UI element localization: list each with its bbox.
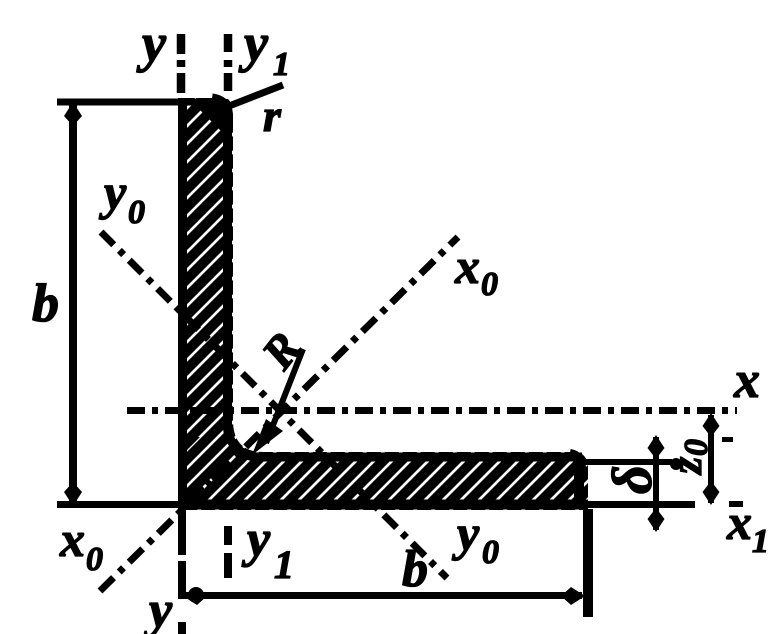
section outline: inner right face of vertical leg — [223, 118, 232, 428]
short dash of x1 axis right of z0 dimension — [729, 501, 743, 507]
dimension b (left): top arrow — [64, 102, 82, 126]
thickness dimension bottom arrow — [648, 508, 665, 532]
svg-text:1: 1 — [274, 542, 294, 587]
axis y1 (top segment) — [224, 34, 233, 98]
leader line for toe radius r — [224, 85, 283, 108]
thickness dimension top arrow — [648, 435, 665, 459]
thickness dimension line — [653, 437, 659, 530]
section outline: right end face of horizontal leg — [574, 460, 584, 508]
extension line at right end of horizontal leg — [583, 509, 593, 617]
extension of top face to the right (for thickness dim) — [582, 459, 672, 465]
svg-text:x: x — [454, 238, 480, 294]
label x0 (bottom left) — [59, 511, 103, 578]
dimension b (bottom): line — [185, 592, 582, 599]
label x1 (bottom right) — [726, 494, 768, 560]
z0 dimension line — [708, 415, 714, 503]
dimension b (left): line — [69, 104, 77, 503]
bottom face extension line to the left (to b dimension) — [57, 501, 178, 508]
short dash right of z0 top arrow — [722, 437, 733, 442]
label x0 (middle right) — [454, 238, 498, 303]
toe radius at right end of horizontal leg — [570, 453, 582, 472]
bottom face extension line to the right (x1 axis) — [588, 501, 695, 508]
svg-text:δ: δ — [602, 465, 664, 494]
svg-text:0: 0 — [678, 439, 715, 456]
axis y (bottom dot) — [178, 622, 186, 634]
dimension b (left): bottom arrow — [64, 482, 82, 506]
svg-text:r: r — [263, 90, 282, 141]
section outline: top face of vertical leg with left extension line — [57, 99, 214, 106]
axis y (bottom segment) — [178, 509, 186, 599]
axis y1 (bottom segment) — [224, 526, 232, 578]
svg-text:b: b — [32, 273, 59, 333]
section outline: left outer face of vertical leg — [178, 98, 187, 510]
svg-text:y: y — [99, 164, 127, 220]
axis y (top segment) — [177, 34, 186, 98]
leader line for fillet radius R — [266, 349, 303, 443]
fillet radius R at inner corner — [228, 426, 259, 457]
dimension b (bottom): left arrow with blob — [183, 587, 207, 605]
svg-text:0: 0 — [481, 266, 498, 303]
svg-text:b: b — [402, 541, 428, 598]
section outline: bottom face of horizontal leg — [178, 500, 588, 510]
axis x (horizontal dash-dot) — [127, 407, 737, 414]
svg-text:y: y — [452, 505, 480, 561]
label z0 (rotated) — [662, 439, 715, 476]
hatching of angle section — [0, 88, 768, 560]
label y0 (bottom) — [452, 505, 499, 571]
svg-text:x: x — [726, 494, 752, 550]
z0 dimension bottom arrow — [703, 481, 720, 505]
dimension b (bottom): right arrow — [561, 587, 585, 605]
axis x0 (45 degree dash-dot, lower-left to upper-right) — [100, 237, 458, 591]
svg-text:1: 1 — [273, 46, 290, 83]
svg-text:0: 0 — [482, 534, 499, 571]
svg-text:x: x — [733, 352, 760, 409]
toe radius r at top of vertical leg — [212, 99, 228, 125]
svg-text:0: 0 — [86, 541, 103, 578]
arrowhead of R leader — [252, 419, 283, 455]
dark corner patch at leg junction — [187, 437, 200, 450]
z0 dimension top arrow — [703, 413, 720, 437]
axis y0 (45 degree dash-dot, upper-left to lower-right) — [101, 232, 447, 578]
label y0 (upper left) — [99, 164, 145, 231]
svg-text:1: 1 — [752, 523, 768, 560]
toe blob at top of vertical leg — [196, 98, 233, 132]
svg-text:z: z — [662, 457, 711, 476]
svg-text:x: x — [59, 511, 85, 567]
svg-text:0: 0 — [128, 194, 145, 231]
section outline: top face of horizontal leg — [258, 453, 582, 462]
label y1 (bottom) — [241, 511, 294, 587]
label y1 (top) — [238, 13, 290, 83]
